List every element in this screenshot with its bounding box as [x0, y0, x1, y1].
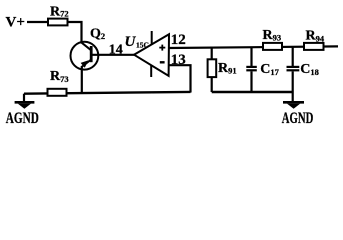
- svg-text:12: 12: [171, 32, 186, 48]
- capacitor C17: [246, 47, 279, 92]
- svg-text:R72: R72: [50, 4, 69, 19]
- op-amp U15C: [125, 31, 170, 77]
- svg-text:15C: 15C: [136, 40, 149, 49]
- svg-text:R93: R93: [263, 28, 282, 43]
- svg-text:AGND: AGND: [6, 110, 39, 127]
- wire: [68, 22, 82, 44]
- svg-text:R91: R91: [218, 61, 237, 76]
- wire pin 13 feedback to ground rail: [169, 65, 191, 92]
- svg-text:U: U: [125, 34, 137, 50]
- wire emitter down: [81, 66, 83, 93]
- svg-text:13: 13: [171, 52, 186, 68]
- svg-text:AGND: AGND: [282, 110, 314, 127]
- wire base to op-amp, node 14: [91, 54, 134, 56]
- capacitor C18: [287, 47, 319, 92]
- transistor Q2: [71, 27, 106, 70]
- wire output pin 12 (top rail): [169, 46, 338, 48]
- svg-text:R94: R94: [306, 29, 325, 44]
- resistor R91: [208, 48, 237, 92]
- wire bottom rail right: [212, 91, 293, 93]
- resistor R73: [48, 89, 67, 96]
- resistor R72: [48, 19, 68, 26]
- svg-text:C18: C18: [300, 62, 319, 77]
- resistor R93: [263, 43, 282, 50]
- wire bottom rail left: [24, 92, 191, 94]
- svg-text:V+: V+: [6, 15, 25, 31]
- svg-text:C17: C17: [260, 62, 279, 77]
- ground AGND right: [282, 92, 314, 127]
- ground AGND left: [6, 94, 39, 127]
- resistor R94: [304, 43, 324, 50]
- svg-text:Q2: Q2: [90, 27, 105, 42]
- wire: [27, 21, 49, 23]
- svg-text:14: 14: [109, 43, 123, 58]
- svg-text:R73: R73: [50, 69, 69, 84]
